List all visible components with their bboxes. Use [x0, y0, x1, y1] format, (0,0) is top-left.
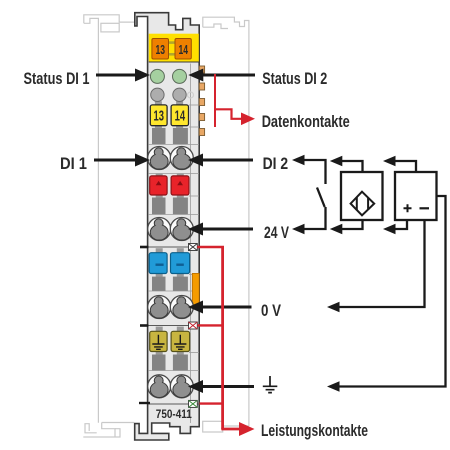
wire power bottom to 24V	[395, 220, 407, 229]
svg-text:14: 14	[175, 109, 186, 125]
switch lower wire to 24V	[304, 207, 326, 229]
power supply box G1	[395, 172, 437, 220]
arrowhead 0V long	[327, 302, 340, 313]
svg-text:DI 2: DI 2	[263, 155, 289, 173]
red power rail	[197, 247, 240, 430]
status LED DI 2 (green)	[173, 69, 187, 83]
power jumper symbol row1	[189, 244, 198, 251]
data contact tab 1	[199, 66, 204, 73]
arrowhead DI2 branch	[292, 155, 305, 166]
marking band (yellow)	[149, 34, 199, 62]
arrowhead switch to 24V	[292, 224, 305, 235]
marking tag 14 (orange)	[175, 39, 191, 60]
wire entry earth row left	[152, 355, 166, 371]
LED (gray) right	[173, 88, 186, 101]
arrowhead power top	[383, 156, 396, 167]
earth ground symbol	[263, 376, 278, 393]
clamp 0V left	[148, 296, 171, 319]
svg-text:0 V: 0 V	[261, 302, 281, 320]
clamp 0V right	[170, 296, 193, 319]
wire sensor top	[342, 161, 363, 172]
marking tag 13 (orange)	[152, 39, 169, 60]
marking tag carrier bridges	[168, 41, 175, 44]
data contact tab 5	[199, 129, 204, 136]
red arrow Leistungskontakte	[239, 422, 255, 436]
clamp DI 2	[170, 147, 193, 170]
data contact tab 2	[199, 83, 204, 90]
orange function slot	[192, 273, 199, 305]
minus symbol	[420, 207, 430, 209]
button neck stubs	[155, 101, 184, 354]
push button 24V right (red)	[171, 176, 189, 195]
arrow Status DI 1	[96, 69, 150, 82]
arrow 24 V	[188, 223, 253, 236]
wire entry earth row right	[173, 355, 188, 371]
svg-text:24 V: 24 V	[264, 224, 289, 242]
power jumper contact tick left row2	[140, 324, 149, 327]
wire entry DI row left	[152, 128, 166, 144]
wire entry 0V row right	[173, 277, 188, 291]
small marker next to LEDs	[188, 92, 194, 98]
arrow earth row	[188, 380, 254, 393]
clamp earth left	[148, 375, 171, 398]
power jumper symbol row3 (green X)	[189, 400, 198, 407]
arrow Status DI 2	[188, 69, 255, 82]
push button 0V right (blue)	[171, 253, 190, 274]
svg-text:Status DI 2: Status DI 2	[262, 70, 327, 88]
push button 14 (yellow)	[171, 105, 188, 126]
arrowhead sensor bottom	[330, 224, 343, 235]
svg-text:13: 13	[154, 109, 165, 125]
wire DI2 to switch	[304, 160, 326, 184]
sensor diamond symbol	[351, 192, 375, 216]
wire entry DI row right	[173, 128, 188, 144]
clamp 24V right	[170, 218, 193, 241]
switch blade	[317, 188, 325, 208]
red arrow Datenkontakte	[241, 113, 255, 126]
wire entry 0V row left	[152, 277, 166, 291]
svg-text:13: 13	[156, 42, 166, 57]
LED (gray) left	[151, 88, 164, 101]
status LED DI 1 (green)	[150, 69, 164, 83]
module 750-411 body outline with DIN-rail profiles	[135, 13, 200, 440]
wire power to 0V	[340, 220, 425, 307]
body separator lines	[149, 64, 199, 424]
svg-text:Status DI 1: Status DI 1	[24, 70, 90, 88]
svg-text:14: 14	[178, 42, 188, 57]
wire entry 24V row right	[173, 198, 188, 215]
wire sensor bottom to 24V	[342, 220, 363, 229]
clamp DI 1	[148, 147, 171, 170]
red line data contacts	[215, 74, 242, 127]
power jumper contact tick left row1	[140, 246, 149, 249]
clamp earth right	[170, 375, 193, 398]
wire power to earth	[340, 196, 446, 387]
svg-text:Datenkontakte: Datenkontakte	[262, 113, 350, 131]
push button 13 (yellow)	[150, 105, 167, 126]
push button earth right (olive)	[171, 331, 190, 351]
wire power supply top	[395, 161, 416, 172]
push button 24V left (red)	[150, 176, 167, 195]
arrow DI 1	[94, 154, 150, 167]
arrowhead earth long	[327, 381, 340, 392]
data contact tab 3	[199, 99, 204, 106]
svg-text:DI 1: DI 1	[60, 155, 87, 173]
wire entry 24V row left	[152, 198, 166, 215]
arrowhead power to 24V	[383, 224, 396, 235]
arrow 0 V	[188, 301, 252, 314]
ghost outline of right neighbour module	[203, 17, 249, 432]
sensor box U1	[341, 172, 383, 220]
power jumper contact tick left row3	[139, 402, 150, 404]
svg-text:Leistungskontakte: Leistungskontakte	[261, 422, 368, 440]
push button earth left (olive)	[150, 331, 167, 351]
arrow DI 2	[188, 154, 253, 167]
ghost outline of left neighbour module	[83, 15, 137, 437]
clamp 24V left	[148, 218, 171, 241]
arrowhead sensor top	[330, 156, 343, 167]
power jumper symbol row2	[189, 322, 198, 329]
plus symbol	[404, 204, 412, 212]
data contact tab 4	[199, 114, 204, 121]
svg-text:750-411: 750-411	[156, 409, 193, 421]
push button 0V left (blue)	[149, 253, 167, 274]
